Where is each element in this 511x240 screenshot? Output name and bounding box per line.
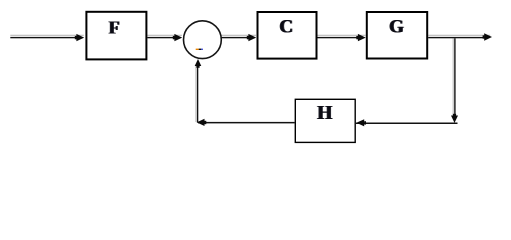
svg-text:H: H: [317, 103, 332, 124]
svg-text:C: C: [279, 17, 293, 38]
svg-text:G: G: [389, 17, 404, 38]
svg-text:F: F: [109, 18, 120, 38]
